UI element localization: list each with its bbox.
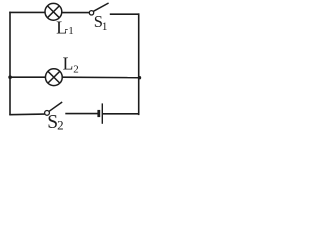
svg-text:1: 1 [102,21,108,33]
svg-text:2: 2 [73,64,79,76]
svg-text:2: 2 [57,117,64,132]
svg-text:L: L [63,54,74,74]
svg-text:1: 1 [68,25,74,37]
